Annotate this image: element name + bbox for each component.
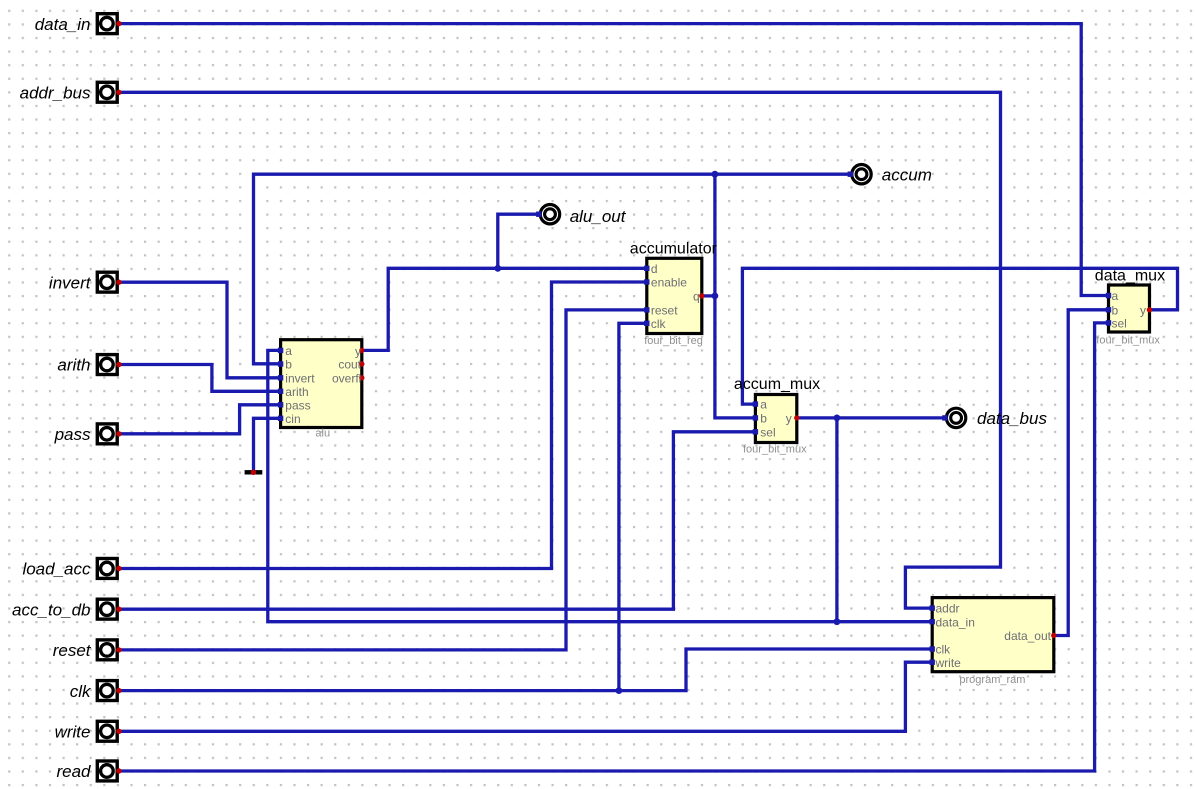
wire net load_acc: pin load_acc to accumulator.enable bbox=[119, 282, 647, 569]
output pin accum bbox=[848, 165, 932, 185]
wire net accum: branch down to accum_mux.b bbox=[715, 174, 756, 418]
svg-text:accum: accum bbox=[882, 166, 932, 185]
junction clk net branch bbox=[616, 687, 623, 694]
svg-text:accumulator: accumulator bbox=[630, 241, 718, 258]
ground (constant tied to alu.cin) bbox=[245, 470, 263, 475]
wire net reset: pin reset to accumulator.reset bbox=[119, 310, 647, 650]
svg-text:data_bus: data_bus bbox=[977, 409, 1047, 428]
junction data_bus at accum_mux.y bbox=[834, 415, 841, 422]
junction alu_out net branch bbox=[494, 265, 501, 272]
input pin acc_to_db bbox=[12, 599, 122, 619]
junction accum net at q bbox=[712, 293, 719, 300]
input pin invert bbox=[49, 272, 122, 292]
input pin data_in bbox=[35, 14, 122, 34]
svg-text:a: a bbox=[760, 398, 767, 412]
svg-text:four_bit_mux: four_bit_mux bbox=[743, 443, 807, 455]
svg-text:four_bit_reg: four_bit_reg bbox=[644, 335, 703, 347]
wire net alu_out: branch to alu_out output pin bbox=[498, 214, 539, 268]
wire net data_mux_y: data_mux.y to accum_mux.a bbox=[742, 268, 1177, 404]
svg-text:cout: cout bbox=[338, 358, 361, 372]
svg-text:data_out: data_out bbox=[1004, 629, 1051, 643]
svg-text:arith: arith bbox=[57, 356, 90, 375]
svg-text:addr_bus: addr_bus bbox=[20, 84, 91, 103]
wire net write: pin write to program_ram.write bbox=[119, 662, 932, 731]
svg-text:b: b bbox=[285, 358, 292, 372]
svg-text:write: write bbox=[935, 656, 962, 670]
input pin arith bbox=[57, 355, 121, 375]
wire net arith: pin arith to alu.arith bbox=[119, 365, 281, 392]
svg-text:pass: pass bbox=[285, 398, 310, 412]
input pin addr_bus bbox=[20, 82, 122, 102]
svg-text:data_in: data_in bbox=[35, 15, 91, 34]
input pin write bbox=[55, 721, 122, 741]
svg-text:write: write bbox=[55, 723, 91, 742]
output pin data_bus bbox=[942, 408, 1047, 428]
component data_mux (subcircuit four_bit_mux) bbox=[1095, 267, 1165, 346]
svg-text:y: y bbox=[786, 412, 792, 426]
input pin load_acc bbox=[22, 559, 121, 579]
wire net acc_to_db: pin acc_to_db to accum_mux.sel bbox=[119, 432, 755, 609]
wire net accum: alu.b up to accum output pin bbox=[254, 174, 851, 364]
svg-text:cin: cin bbox=[285, 412, 300, 426]
component alu (subcircuit alu) bbox=[278, 340, 377, 440]
svg-text:b: b bbox=[760, 412, 767, 426]
svg-text:q: q bbox=[693, 290, 700, 304]
svg-text:read: read bbox=[56, 762, 91, 781]
svg-text:reset: reset bbox=[53, 641, 92, 660]
input pin pass bbox=[54, 424, 122, 444]
wire net data_out: program_ram.data_out to data_mux.b bbox=[1054, 310, 1109, 636]
component program_ram (subcircuit program_ram) bbox=[930, 598, 1057, 686]
input pin read bbox=[56, 761, 121, 781]
svg-text:clk: clk bbox=[936, 643, 952, 657]
svg-text:data_mux: data_mux bbox=[1095, 267, 1165, 284]
svg-text:acc_to_db: acc_to_db bbox=[12, 600, 90, 619]
svg-text:enable: enable bbox=[651, 276, 687, 290]
svg-text:pass: pass bbox=[54, 425, 91, 444]
wire net data_in: pin data_in to data_mux.a bbox=[119, 24, 1109, 296]
svg-text:invert: invert bbox=[285, 371, 315, 385]
svg-text:clk: clk bbox=[70, 682, 92, 701]
wire net data_bus: branch down to bus row bbox=[835, 418, 838, 622]
component accumulator (subcircuit four_bit_reg) bbox=[630, 241, 718, 347]
svg-text:a: a bbox=[285, 344, 292, 358]
svg-text:a: a bbox=[1112, 289, 1119, 303]
svg-text:clk: clk bbox=[651, 317, 667, 331]
junction data_bus at bus row bbox=[834, 618, 841, 625]
wire net alu_out: alu.y to accumulator.d bbox=[362, 268, 647, 350]
input pin clk bbox=[70, 681, 122, 701]
component accum_mux (subcircuit four_bit_mux) bbox=[734, 376, 820, 455]
svg-text:alu_out: alu_out bbox=[570, 207, 627, 226]
wire net data_bus: accum_mux.y to data_bus output pin bbox=[797, 416, 945, 419]
wire net data_bus: alu.a to program_ram.data_in bbox=[268, 350, 932, 621]
wire net accum: accumulator.q stub bbox=[702, 294, 715, 297]
svg-text:b: b bbox=[1112, 303, 1119, 317]
input pin reset bbox=[53, 640, 122, 660]
svg-text:sel: sel bbox=[760, 425, 775, 439]
wire net clk: pin clk to program_ram.clk bbox=[119, 649, 932, 691]
wire net pass: pin pass to alu.pass bbox=[119, 405, 281, 434]
wire net addr_bus: pin addr_bus to program_ram.addr bbox=[119, 92, 1001, 608]
svg-text:d: d bbox=[651, 262, 658, 276]
svg-text:addr: addr bbox=[936, 602, 960, 616]
svg-text:program_ram: program_ram bbox=[959, 674, 1025, 686]
output pin alu_out bbox=[536, 205, 627, 227]
svg-text:y: y bbox=[1140, 303, 1146, 317]
svg-text:four_bit_mux: four_bit_mux bbox=[1096, 334, 1160, 346]
svg-text:load_acc: load_acc bbox=[22, 560, 91, 579]
svg-text:sel: sel bbox=[1112, 317, 1127, 331]
svg-text:reset: reset bbox=[651, 304, 678, 318]
svg-text:invert: invert bbox=[49, 273, 92, 292]
wire net read: pin read to data_mux.sel bbox=[119, 323, 1109, 771]
svg-text:alu: alu bbox=[315, 428, 330, 440]
svg-text:data_in: data_in bbox=[936, 615, 975, 629]
wire net cin: alu.cin to ground bbox=[254, 418, 281, 470]
junction accum net top bbox=[712, 171, 719, 178]
wire net clk: branch to accumulator.clk bbox=[619, 323, 647, 690]
svg-text:y: y bbox=[355, 344, 361, 358]
svg-text:arith: arith bbox=[285, 385, 308, 399]
svg-text:accum_mux: accum_mux bbox=[734, 376, 820, 393]
wire net invert: pin invert to alu.invert bbox=[119, 282, 281, 378]
